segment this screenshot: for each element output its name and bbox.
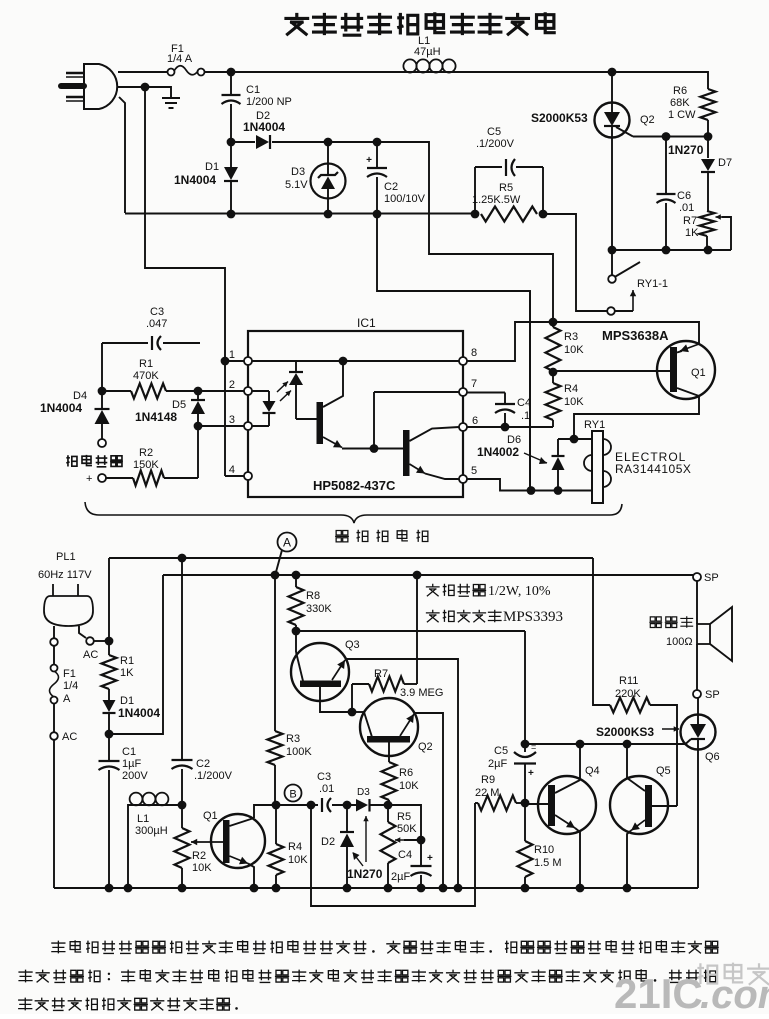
svg-text:10K: 10K [564, 396, 584, 408]
svg-text:SP: SP [705, 689, 720, 701]
svg-text:100/10V: 100/10V [384, 193, 426, 205]
transistor T2 inside IC [374, 448, 403, 450]
svg-text:.047: .047 [146, 318, 167, 330]
svg-text:C5: C5 [487, 126, 501, 138]
svg-text:1N4004: 1N4004 [40, 401, 82, 415]
resistor R2 150K [106, 477, 133, 479]
node rail C1b [105, 884, 114, 893]
capacitor C2b .1/200V [181, 558, 183, 760]
svg-text:+: + [528, 768, 534, 779]
capacitor C6 .01 [665, 137, 667, 194]
svg-text:R5: R5 [397, 811, 411, 823]
svg-text:60Hz 117V: 60Hz 117V [38, 569, 92, 581]
wire pin1 rail [252, 360, 296, 362]
svg-text:R4: R4 [564, 383, 578, 395]
pin 2 [244, 387, 252, 395]
svg-text:.1/200V: .1/200V [476, 138, 515, 150]
resistor R5b 50K pot [387, 805, 389, 822]
node pin1 branch [221, 357, 230, 366]
svg-text:Q5: Q5 [656, 765, 671, 777]
fuse F1 bottom [53, 646, 55, 664]
svg-text:RA3144105X: RA3144105X [615, 462, 691, 476]
svg-text:1N4004: 1N4004 [243, 120, 285, 134]
wire L1 to Q2 node [457, 71, 612, 73]
svg-text:1/4 A: 1/4 A [167, 53, 193, 65]
resistor R5 1.25K 5W [481, 207, 537, 222]
svg-text:3: 3 [229, 414, 235, 426]
capacitor C2 100/10V [376, 142, 378, 167]
capacitor C1b 1uF 200V [108, 734, 110, 761]
wire R5 to RY1 contact [543, 214, 607, 311]
terminal phone minus [98, 439, 106, 447]
resistor R1 470K [102, 390, 131, 392]
terminal AC lower [53, 703, 55, 732]
wire pin4 stub [225, 475, 244, 477]
diode D2b 1N270 [346, 805, 348, 832]
resistor R1b 1K [108, 641, 110, 655]
AC mains plug [84, 64, 117, 109]
svg-text:R1: R1 [139, 358, 153, 370]
node T1 emitter T2 base [370, 444, 379, 453]
ground [162, 97, 180, 99]
svg-text:1N4002: 1N4002 [477, 445, 519, 459]
svg-text:Q1: Q1 [691, 367, 706, 379]
svg-text:IC1: IC1 [357, 316, 376, 330]
svg-text:RY1: RY1 [584, 419, 605, 431]
wire pin5 [467, 479, 592, 491]
svg-text:C4: C4 [517, 397, 531, 409]
svg-text:100Ω: 100Ω [666, 636, 693, 648]
pin 7 [459, 388, 467, 396]
wire gate rail [633, 136, 708, 138]
node D1b bottom [105, 730, 114, 739]
wire pin6 rail [467, 426, 553, 428]
resistor R9 22M [475, 802, 478, 804]
svg-text:1µF: 1µF [122, 758, 141, 770]
svg-text:A: A [63, 693, 71, 705]
node D2 top [343, 801, 352, 810]
svg-text:R2: R2 [192, 850, 206, 862]
svg-text:10K: 10K [192, 862, 212, 874]
svg-text:1/2W, 10%: 1/2W, 10% [488, 584, 551, 599]
svg-text:8: 8 [471, 347, 477, 359]
svg-text:HP5082-437C: HP5082-437C [313, 478, 396, 493]
wire node B rail [254, 804, 318, 806]
wire lower rail [125, 213, 475, 215]
svg-text:.01: .01 [319, 783, 334, 795]
wire C2branch join [529, 291, 531, 491]
wire plug line2 down [119, 97, 125, 213]
svg-text:1/4: 1/4 [63, 680, 78, 692]
node Q3Q2R7 [348, 708, 357, 717]
resistor R3b 100K [274, 575, 276, 731]
node R8 bottom [292, 627, 301, 636]
node C6 top [662, 132, 671, 141]
paragraph line3 [18, 998, 32, 1011]
node R5 right [539, 210, 548, 219]
svg-text:RY1-1: RY1-1 [637, 278, 668, 290]
svg-text:MPS3393: MPS3393 [503, 609, 563, 625]
wire neutral down [145, 87, 225, 476]
wire top rail to L1 [231, 71, 403, 73]
svg-text:R11: R11 [619, 675, 638, 687]
node branch490 [527, 486, 536, 495]
pin 1 [244, 357, 252, 365]
svg-text:5.1V: 5.1V [285, 179, 308, 191]
svg-text:2: 2 [229, 379, 235, 391]
node Q2 top [608, 68, 617, 77]
svg-text:50K: 50K [397, 823, 417, 835]
note 所有晶体管MPS3393 [426, 610, 440, 622]
svg-text:22 M: 22 M [475, 787, 499, 799]
svg-text:B: B [289, 789, 296, 801]
relay RY1 coil [592, 431, 603, 503]
wire Q2 emitter [415, 713, 443, 888]
plug PL1 [44, 596, 93, 626]
transistor Q1 MPS3638A [657, 341, 715, 399]
wire C2 branch down [377, 214, 530, 490]
svg-text:R9: R9 [481, 774, 495, 786]
fuse F1 1/4A top [168, 69, 175, 76]
resistor R7b 3.9MEG [351, 684, 353, 712]
svg-text:R6: R6 [399, 767, 413, 779]
wire Q1 collector top [553, 321, 699, 323]
node R6R5 [384, 801, 393, 810]
capacitor C1 1/200NP [230, 72, 232, 95]
svg-text:7: 7 [471, 378, 477, 390]
svg-text:A: A [283, 536, 291, 550]
label 电话线路 [66, 455, 77, 466]
transistor Q1b [211, 814, 265, 868]
wire to ground [145, 87, 171, 97]
svg-text:1N4004: 1N4004 [174, 173, 216, 187]
svg-text:1.5 M: 1.5 M [534, 857, 562, 869]
brace ring detector [85, 502, 622, 523]
paragraph line1 [51, 941, 65, 954]
triac Q2 S2000K53 [611, 72, 613, 103]
svg-text:C3: C3 [150, 306, 164, 318]
wire RY1 top [558, 438, 592, 440]
svg-text:R8: R8 [306, 590, 320, 602]
svg-text:L1: L1 [137, 813, 149, 825]
wire pin1 stub [225, 360, 244, 362]
wire pin8 up [467, 322, 553, 361]
svg-text:+: + [427, 853, 433, 864]
svg-text:R10: R10 [534, 844, 554, 856]
wire to C4b [388, 805, 421, 866]
node D5 top [194, 387, 203, 396]
node rail R2b [178, 884, 187, 893]
node rail L1b [124, 884, 133, 893]
node rail R4b [272, 884, 281, 893]
svg-text:.1: .1 [521, 410, 530, 422]
transistor Q2b [360, 698, 418, 756]
svg-text:4: 4 [229, 464, 235, 476]
svg-text:1 CW: 1 CW [668, 109, 696, 121]
svg-text:1K: 1K [120, 667, 134, 679]
note 所有电阻1/2W 10% [426, 584, 440, 596]
pin 5 [459, 475, 467, 483]
node wiper [417, 836, 426, 845]
node D3 bottom [324, 210, 333, 219]
svg-text:330K: 330K [306, 603, 332, 615]
svg-text:1N270: 1N270 [347, 867, 383, 881]
node R1 left [98, 387, 107, 396]
terminal SP2 [693, 690, 701, 698]
pin 3 [244, 422, 252, 430]
svg-text:21IC: 21IC [614, 970, 703, 1014]
resistor R4 10K mid [552, 372, 554, 383]
node C6 bottom [662, 246, 671, 255]
svg-text:R6: R6 [673, 85, 687, 97]
inductor L1b 300uH [127, 804, 129, 888]
svg-text:10K: 10K [564, 344, 584, 356]
transistor Q5 [610, 776, 668, 834]
triac Q6 S2000KS3 [681, 715, 716, 750]
node D1 bottom [227, 210, 236, 219]
wire to pin2 [198, 390, 244, 392]
pin 4 [244, 472, 252, 480]
svg-text:200V: 200V [122, 770, 148, 782]
svg-text:1K: 1K [685, 227, 699, 239]
node rail Q2e [439, 884, 448, 893]
svg-text:Q2: Q2 [418, 741, 433, 753]
svg-text:Q1: Q1 [203, 810, 218, 822]
node C1 top [227, 68, 236, 77]
resistor R6 68K [701, 89, 716, 120]
wire C3 left down [101, 343, 103, 391]
svg-text:R7: R7 [374, 668, 388, 680]
node C2 bottom [373, 210, 382, 219]
zener D3 5.1V [327, 142, 329, 164]
svg-text:1N4004: 1N4004 [118, 706, 160, 720]
wire rail1 to R11 [593, 558, 610, 705]
node Q5 collector [623, 740, 632, 749]
svg-text:10K: 10K [399, 780, 419, 792]
svg-text:2µF: 2µF [391, 871, 410, 883]
node RY1 top [570, 435, 579, 444]
svg-text:C1: C1 [122, 746, 136, 758]
wire plug neutral [118, 86, 145, 88]
node IC rail [339, 357, 348, 366]
svg-text:1: 1 [229, 349, 235, 361]
svg-text:Q6: Q6 [705, 751, 720, 763]
potentiometer R7 1K [700, 211, 715, 236]
svg-text:1/200 NP: 1/200 NP [246, 96, 292, 108]
node R3 bottom [549, 368, 558, 377]
wire right prong to R1 [94, 640, 109, 642]
svg-text:.01: .01 [679, 202, 694, 214]
svg-text:C2: C2 [196, 758, 210, 770]
terminal AC right [86, 637, 94, 645]
node R8 top [292, 571, 301, 580]
transistor T1 inside IC [317, 402, 324, 444]
svg-text:R3: R3 [286, 733, 300, 745]
node subrail top [307, 801, 316, 810]
capacitor C5 .1/200V [475, 166, 502, 168]
node D3 top [324, 138, 333, 147]
diode D1b 1N4004 [108, 689, 110, 700]
node R9 right [521, 799, 530, 808]
transistor Q3 [291, 643, 349, 701]
svg-text:5: 5 [471, 465, 477, 477]
wire to R6 corner [612, 72, 708, 89]
node rail C4b [417, 884, 426, 893]
node R5 left [471, 210, 480, 219]
node C2 top [373, 138, 382, 147]
svg-text:S2000KS3: S2000KS3 [596, 725, 654, 739]
svg-text:1N270: 1N270 [668, 143, 704, 157]
node rail Q1b [250, 884, 259, 893]
speaker 扬声器 100ohm [696, 581, 698, 624]
svg-text:C3: C3 [317, 771, 331, 783]
node ground branch [141, 83, 150, 92]
node A junction [271, 571, 280, 580]
svg-text:3.9 MEG: 3.9 MEG [400, 687, 443, 699]
svg-text:D7: D7 [718, 157, 732, 169]
diode D3b 1N270 [356, 799, 368, 812]
node C2b top [178, 554, 187, 563]
svg-text:R5: R5 [499, 182, 513, 194]
svg-text:68K: 68K [670, 97, 690, 109]
node rail Q3e [454, 884, 463, 893]
svg-text:C5: C5 [494, 745, 508, 757]
node rail Q4e [576, 884, 585, 893]
node R1 top [105, 637, 114, 646]
svg-text:Q4: Q4 [585, 765, 600, 777]
svg-text:2µF: 2µF [488, 758, 507, 770]
paragraph line2 [18, 970, 32, 983]
node rail Q5e [623, 884, 632, 893]
svg-text:R4: R4 [288, 841, 302, 853]
node rail R5b [384, 884, 393, 893]
svg-text:F1: F1 [63, 668, 76, 680]
wire Q1 emitter to RY1 [574, 396, 699, 439]
node R6 bottom [704, 132, 713, 141]
IC IC1 box [248, 331, 463, 497]
svg-text:10K: 10K [288, 854, 308, 866]
wire pin7 internal [374, 391, 459, 393]
svg-text:R3: R3 [564, 331, 578, 343]
wire Q3 emitter [346, 659, 458, 888]
svg-text:220K: 220K [615, 688, 641, 700]
node B junction [272, 801, 281, 810]
svg-text:AC: AC [62, 731, 77, 743]
wire plug to fuse [118, 71, 167, 73]
node C4 bottom [501, 423, 510, 432]
node C5 top [521, 740, 530, 749]
node R7 bottom [704, 246, 713, 255]
svg-text:Q3: Q3 [345, 639, 360, 651]
pin 8 [459, 357, 467, 365]
diode D1 1N4004 [230, 142, 232, 167]
node triac bottom [608, 246, 617, 255]
svg-text:100K: 100K [286, 746, 312, 758]
wire R8 to C5 branch [296, 630, 525, 632]
svg-text:470K: 470K [133, 370, 159, 382]
diode D6 1N4002 [557, 439, 559, 456]
wire R2 up [197, 426, 199, 478]
svg-text:C2: C2 [384, 181, 398, 193]
capacitor C4b 2uF [411, 865, 432, 867]
terminal SP1 [693, 573, 701, 581]
bottom rail [54, 887, 698, 889]
svg-text:+: + [366, 155, 372, 166]
resistor R4b 10K [275, 805, 277, 844]
light arrows [277, 382, 288, 393]
svg-text:1N4148: 1N4148 [135, 410, 177, 424]
svg-text:1.25K.5W: 1.25K.5W [472, 194, 521, 206]
wire R1 node up rail1 [108, 558, 110, 641]
node rail R10 [521, 884, 530, 893]
resistor R8 330K [295, 575, 297, 587]
gate wire [525, 743, 686, 745]
resistor R6b 10K [382, 762, 397, 800]
svg-text:D3: D3 [291, 166, 305, 178]
wire bottom of triac block [612, 249, 731, 251]
transistor Q4 [538, 776, 596, 834]
rail1 [109, 557, 593, 559]
subrail loop [311, 803, 475, 906]
svg-text:6: 6 [472, 415, 478, 427]
svg-text:Q2: Q2 [640, 114, 655, 126]
svg-text:S2000K53: S2000K53 [531, 111, 588, 125]
node Q4 collector [576, 740, 585, 749]
svg-text:+: + [86, 473, 92, 485]
label 振铃探测器 [335, 530, 349, 541]
svg-text:C6: C6 [677, 190, 691, 202]
diode D4 1N4004 [101, 391, 103, 409]
node A circle [278, 533, 297, 552]
node B circle [285, 785, 302, 802]
wire D3node to C2node [328, 141, 377, 143]
svg-text:R1: R1 [120, 655, 134, 667]
resistor R11 220K [610, 698, 650, 713]
svg-text:D2: D2 [321, 836, 335, 848]
capacitor C3b .01 [321, 798, 323, 812]
node D5 bottom [194, 422, 203, 431]
rail2 [163, 574, 693, 576]
svg-text:SP: SP [704, 572, 719, 584]
wire fuse to C1 node [204, 71, 231, 73]
node rail D2b [343, 884, 352, 893]
node R3 top [549, 318, 558, 327]
svg-text:.1/200V: .1/200V [194, 770, 233, 782]
svg-text:C1: C1 [246, 84, 260, 96]
capacitor C4 .1 [467, 392, 505, 394]
svg-text:R2: R2 [139, 447, 153, 459]
diode D2 1N4004 [231, 141, 255, 143]
diode D7 1N270 [707, 137, 709, 159]
inductor L1 47uH [403, 71, 457, 73]
svg-text:AC: AC [83, 649, 98, 661]
resistor R2b 10K pot [181, 805, 183, 828]
svg-text:150K: 150K [133, 459, 159, 471]
svg-text:MPS3638A: MPS3638A [602, 328, 669, 343]
svg-text:47µH: 47µH [414, 46, 441, 58]
wire to rail2 left [109, 575, 163, 734]
svg-text:R7: R7 [683, 215, 697, 227]
terminal AC left [50, 638, 58, 646]
resistor R3 10K mid [546, 327, 561, 371]
node D6 bottom [554, 486, 563, 495]
svg-text:D3: D3 [357, 787, 370, 798]
title 插入式远程电话振铃器 [284, 13, 309, 35]
node D1 top [227, 138, 236, 147]
resistor R10 1.5M [524, 803, 526, 841]
wire to pin3 [198, 425, 244, 427]
relay contact RY1-1 [611, 250, 613, 275]
